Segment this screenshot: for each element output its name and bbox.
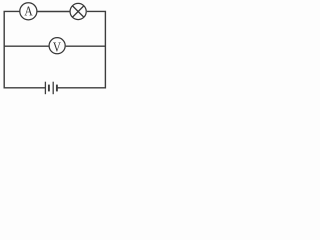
wire between ammeter and lamp bbox=[37, 11, 69, 13]
battery B1 long plate cell2 bbox=[52, 82, 54, 95]
battery B1 short plate cell2 bbox=[56, 85, 58, 92]
battery B1 long plate cell1 bbox=[44, 82, 46, 95]
label V of voltmeter bbox=[53, 43, 61, 52]
wire left loop: top-left corner, left vertical, bottom-left run bbox=[4, 11, 45, 87]
voltmeter U2 circle bbox=[49, 38, 65, 54]
wire middle-right segment bbox=[66, 45, 106, 47]
battery B1 short plate cell1 bbox=[48, 85, 50, 92]
lamp X1 circle bbox=[70, 3, 86, 19]
label A of ammeter bbox=[24, 7, 32, 16]
wire right loop: top-right corner, right vertical, bottom-right run bbox=[57, 11, 105, 87]
lamp X1 cross stroke 1 bbox=[72, 6, 84, 18]
wire middle-left segment bbox=[4, 45, 48, 47]
ammeter U1 circle bbox=[20, 3, 37, 20]
lamp X1 cross stroke 2 bbox=[72, 6, 84, 18]
